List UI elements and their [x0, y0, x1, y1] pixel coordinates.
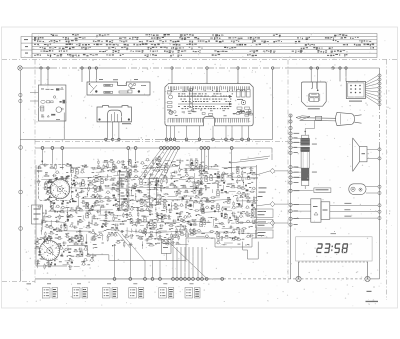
transistor can dark spots: [42, 161, 254, 266]
cord wire down to battery section: [314, 120, 316, 128]
left terminal circles: [289, 132, 292, 226]
wire J8 to clock module: [237, 70, 239, 84]
alarm label box: [314, 188, 331, 193]
slave-in label: [122, 123, 131, 124]
lamp terminal 2: [378, 191, 381, 194]
battery cell stack: [301, 131, 310, 189]
slave-in connector outline: [97, 106, 131, 122]
clock module tall component: [190, 89, 193, 108]
slave-in jack body: [108, 110, 122, 122]
signal path wires: [41, 167, 258, 234]
filter board bottom wire: [63, 113, 65, 140]
scan noise speckle: [22, 33, 391, 307]
wires from radio to bottom bus: [115, 232, 207, 278]
filter board components: [41, 87, 66, 120]
radio bus junctions: [41, 147, 233, 150]
clock module left components: [167, 91, 173, 115]
junction row circles: [105, 138, 107, 140]
mains plug pins: [355, 115, 362, 116]
connector wires right with labels: [330, 203, 381, 220]
frame separator vertical left: [34, 60, 36, 284]
mains filter board outline: [38, 85, 66, 121]
bus junction J9: [310, 67, 312, 69]
frame separator mid horizontal: [35, 141, 288, 143]
display mounting foot right: [365, 276, 370, 281]
wire J7 to clock module: [206, 70, 208, 84]
frame separator vertical right: [386, 60, 388, 301]
slave connector wires down: [107, 122, 109, 139]
wire J2 to filter board: [47, 70, 49, 86]
right bus terminal circles top: [378, 74, 381, 106]
alarm label wire: [292, 189, 314, 192]
battery labels: [312, 143, 317, 146]
ferrite antenna label box: [32, 205, 43, 224]
drawing number: [366, 301, 379, 302]
parts table text entries: [24, 34, 374, 58]
terminal A4: [19, 190, 23, 194]
speaker terminal circle 1: [378, 148, 381, 151]
mains plug body: [336, 112, 355, 125]
audio section components: [198, 164, 258, 241]
terminal A3: [19, 146, 23, 150]
mains earth terminal: [18, 66, 22, 70]
clock module PCB outline: [165, 84, 253, 126]
bus junction J11: [332, 67, 334, 69]
bus junction J3: [81, 67, 83, 69]
antenna terminal A2: [19, 99, 22, 102]
display lower housing: [299, 262, 368, 279]
bus junction J5: [95, 67, 97, 69]
tuning gang capacitor 1: [39, 165, 77, 205]
bus junction J6: [171, 67, 173, 69]
mains cord terminal T1: [289, 114, 292, 117]
clock module interior details: [169, 109, 253, 116]
seven-segment time 23:58: [316, 243, 348, 253]
filter board left stub wire: [30, 92, 38, 94]
clock module bottom pad row: [168, 118, 250, 122]
bus junction J4: [88, 67, 90, 69]
mid junction row line: [20, 138, 135, 140]
wire J10 into speaker slot: [317, 70, 319, 91]
hanging connector below radio: [161, 240, 171, 254]
volume control connector plug: [321, 202, 330, 220]
AC adaptor socket outline: [346, 81, 365, 98]
AC adaptor socket pins: [350, 85, 361, 94]
AM tuner section components: [36, 163, 99, 241]
slave-in jack pins: [111, 114, 113, 122]
line board components: [89, 83, 146, 93]
wire J3 to line board: [81, 70, 83, 83]
volume control connector body: [311, 199, 321, 222]
IF section components: [93, 156, 205, 239]
AC socket fan-out wires: [366, 76, 379, 105]
filter board left stub wire 2: [30, 100, 38, 102]
bottom bus junctions: [113, 278, 224, 281]
bus junction J10: [316, 67, 318, 69]
line transformer board outline: [87, 82, 150, 95]
lamp terminal 1: [378, 185, 381, 188]
clock display bezel: [296, 237, 373, 261]
bus junction J7: [206, 67, 208, 69]
terminal A5: [19, 227, 23, 231]
bottom bus wire: [35, 278, 223, 280]
wire bus to junction row right: [272, 70, 274, 140]
mains cord strain relief: [296, 116, 310, 120]
line board designator text: [99, 78, 103, 81]
mains cord terminal T2: [289, 120, 292, 123]
amplifier label: [367, 291, 372, 292]
clock IC rails: [178, 93, 233, 109]
wire J6 to clock module: [171, 70, 173, 84]
left terminal bus wire: [290, 113, 292, 279]
cord clamp: [316, 116, 322, 120]
radio section top bus: [35, 147, 272, 149]
radio section outline steps: [36, 165, 257, 266]
wire J4 to line board: [89, 70, 91, 83]
antenna terminal wire: [19, 70, 21, 281]
frame separator bottom left stub: [2, 281, 35, 283]
wire J1 to filter board: [40, 70, 42, 86]
dial lamp holder: [349, 184, 366, 195]
radio bus drop wires: [43, 149, 232, 180]
clock IC pin row top: [168, 86, 250, 92]
AC adaptor socket label: [349, 101, 362, 102]
clock module right components: [237, 90, 251, 112]
wire J12 to AC socket: [339, 70, 341, 82]
clock module pin wires down: [167, 126, 249, 138]
alarm speaker outline: [302, 82, 327, 106]
display board dashed line: [298, 261, 368, 263]
dial lamp 1: [351, 187, 355, 191]
frame separator vertical mid: [287, 60, 289, 284]
switch terminal diamonds: [270, 168, 275, 225]
component legend row: [43, 283, 201, 298]
top supply bus wire: [22, 67, 52, 69]
lower mid components: [98, 235, 250, 249]
stepped tab below switch boxes: [243, 242, 259, 259]
frame separator dash-dot top: [2, 59, 397, 61]
main speaker frame: [359, 147, 367, 162]
bus junction J12: [339, 67, 341, 69]
wire J9 to alarm speaker: [310, 70, 312, 83]
dial lamp 2: [359, 188, 362, 191]
bus junction J1: [40, 67, 42, 69]
alarm speaker magnet core: [308, 93, 320, 101]
bus junction J13: [345, 67, 347, 69]
left terminal labels: [294, 133, 300, 225]
bus junction J8b: [272, 67, 274, 69]
wire J5 to line board: [95, 70, 97, 83]
clock module pin junction circles: [165, 138, 250, 141]
mains cord terminal T3: [289, 126, 292, 129]
terminal stub wires to battery: [292, 138, 301, 178]
display type label: [331, 232, 337, 235]
switch function labels: [256, 187, 274, 238]
alarm speaker label: [308, 108, 320, 109]
display mounting foot left: [296, 276, 301, 281]
right vertical bus wire: [379, 68, 381, 106]
wire J13 to AC socket: [345, 70, 347, 82]
connector wires left: [292, 205, 311, 219]
main speaker cone: [353, 138, 360, 172]
oscillator section components: [34, 229, 163, 269]
antenna terminal A1: [19, 93, 22, 96]
mains cord cable: [300, 118, 336, 121]
speaker terminal circle 2: [378, 157, 381, 160]
wires radio to switch diamonds: [230, 156, 288, 224]
bus junction J2: [47, 67, 49, 69]
lamp wires: [366, 186, 378, 188]
main speaker terminal wires: [367, 148, 378, 150]
parts list table: [21, 34, 377, 58]
tuning gang capacitor 2: [38, 238, 64, 266]
corner reference text: [27, 282, 32, 285]
bus junction J8: [237, 67, 239, 69]
